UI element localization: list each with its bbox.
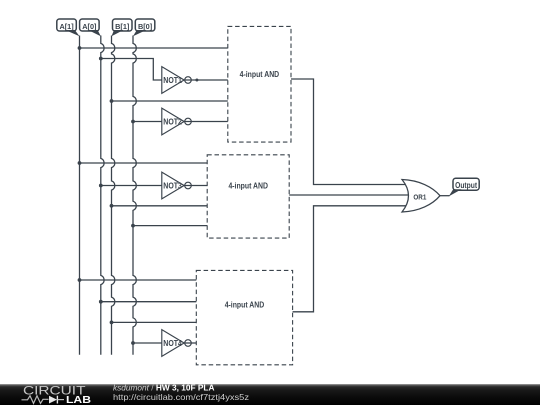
flag/net label Output (449, 178, 480, 196)
node: junction B[0] row (131, 120, 135, 124)
or-gate OR1 (402, 180, 440, 213)
wire: B[0] to AND2 input 4 (133, 225, 207, 227)
logo: resistor zigzag symbol (22, 396, 49, 404)
inverter NOT2 (162, 108, 192, 135)
svg-text:A[1]: A[1] (59, 22, 74, 31)
flag/net label A[1] (57, 19, 80, 36)
svg-text:NOT4: NOT4 (163, 339, 182, 348)
wire: A[1] to AND3 input 1 (80, 279, 197, 281)
node: junction B[1] sec2 (110, 204, 114, 208)
wire: NOT2 output to AND1 input 4 (184, 121, 228, 123)
svg-text:A[0]: A[0] (82, 22, 97, 31)
wire: AND2 output to OR1 middle input (289, 194, 408, 196)
wire: B[0] to NOT2 input (133, 121, 162, 123)
wire: net B[0] vertical rail with crossover hops (133, 36, 136, 355)
node: junction B[1] row (110, 99, 114, 103)
svg-text:OR1: OR1 (413, 192, 427, 201)
node: junction B[1] sec3 (110, 321, 114, 325)
wire: net B[1] vertical rail with crossover hops (112, 36, 115, 355)
wire: NOT3 output to AND2 input 2 (184, 185, 207, 187)
flag/net label B[0] (133, 19, 155, 36)
svg-text:NOT2: NOT2 (163, 118, 182, 127)
svg-text:NOT3: NOT3 (163, 182, 182, 191)
wire: NOT4 output to AND3 input 4 (184, 342, 197, 344)
wire: B[1] to AND3 input 3 (112, 321, 197, 323)
svg-text:4-input AND: 4-input AND (225, 301, 265, 310)
node: junction B[0] sec3 (131, 341, 135, 345)
svg-text:Output: Output (455, 181, 477, 190)
AND block 1 (dashed box, 4-input AND) (228, 26, 291, 142)
svg-text:4-input AND: 4-input AND (240, 70, 280, 79)
wire: AND1 output to OR1 top input (291, 79, 406, 185)
node: junction B[0] sec2 (131, 224, 135, 228)
node: junction A[0] sec3 (99, 300, 103, 304)
wire: A[1] to AND2 input 1 (80, 162, 208, 164)
wire: NOT1 output to AND1 input 2 (184, 79, 228, 81)
node: junction A[0] sec2 (99, 184, 103, 188)
footer: CircuitLab banner bar (0, 384, 540, 405)
AND block 2 (dashed box, 4-input AND) (207, 155, 289, 238)
node: junction A[0] row2 (99, 57, 103, 61)
node: junction after NOT1 bubble (195, 79, 198, 82)
flag/net label B[1] (112, 19, 133, 36)
wire: net A[1] vertical rail (79, 36, 81, 355)
node: junction A[1] sec3 (78, 278, 82, 282)
inverter NOT1 (162, 67, 192, 94)
node: junction A[1] row1 (78, 46, 82, 50)
svg-text:B[1]: B[1] (115, 22, 130, 31)
wire: A[1] to AND1 input 1 (80, 47, 228, 49)
logo: diode symbol (49, 396, 57, 404)
wire: B[0] to NOT4 input (133, 342, 162, 344)
node: junction A[1] sec2 (78, 161, 82, 165)
wire: B[1] to AND2 input 3 (112, 205, 208, 207)
wire: B[1] to AND1 input 3 (112, 100, 228, 102)
svg-text:LAB: LAB (66, 395, 91, 405)
wire: OR1 output to Output flag (439, 195, 450, 197)
svg-text:4-input AND: 4-input AND (228, 181, 268, 190)
wire: A[0] to AND3 input 2 (101, 301, 197, 303)
flag/net label A[0] (80, 19, 101, 36)
svg-text:http://circuitlab.com/cf7tztj4: http://circuitlab.com/cf7tztj4yxs5z (113, 392, 249, 402)
wire: AND3 output to OR1 bottom input (293, 206, 406, 312)
inverter NOT3 (162, 172, 192, 199)
inverter NOT4 (162, 330, 192, 357)
wire: net A[0] vertical rail with crossover hops (101, 36, 104, 355)
wire: A[0] to NOT3 input (101, 185, 162, 187)
svg-text:B[0]: B[0] (138, 22, 153, 31)
wire: A[0] to NOT1 input (with bend) (101, 59, 162, 81)
svg-text:NOT1: NOT1 (163, 76, 182, 85)
AND block 3 (dashed box, 4-input AND) (196, 270, 292, 364)
